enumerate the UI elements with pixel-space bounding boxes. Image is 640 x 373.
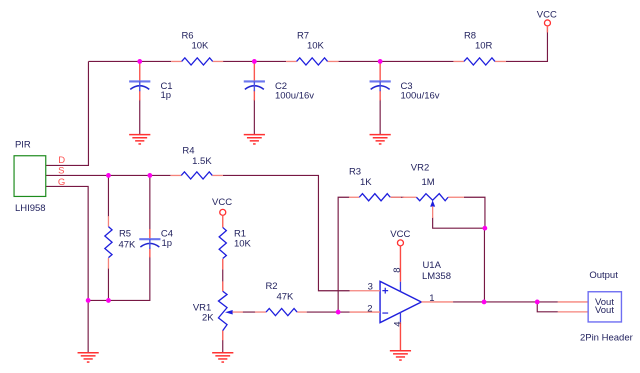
- svg-text:10K: 10K: [307, 41, 325, 52]
- junction top bus at C3: [378, 59, 383, 64]
- ground under C3: [370, 135, 391, 144]
- resistor R5 body: [105, 227, 112, 258]
- resistor R7 body: [297, 58, 328, 65]
- svg-text:VR2: VR2: [411, 163, 429, 174]
- power VCC above op-amp: [397, 240, 403, 246]
- resistor R5 pins: [107, 216, 109, 269]
- svg-text:2Pin Header: 2Pin Header: [580, 333, 633, 344]
- op-amp U1A body: [380, 281, 421, 322]
- wire header node to pin1 of header: [537, 301, 558, 303]
- svg-text:1M: 1M: [421, 177, 434, 188]
- op-amp pin 4 lead: [399, 322, 401, 350]
- svg-text:LM358: LM358: [422, 271, 451, 282]
- op-amp pin 3 lead: [350, 290, 380, 292]
- op-amp pin 8 lead: [399, 246, 401, 282]
- wire top bus segment R7 to R8: [339, 60, 454, 62]
- junction top bus at C1: [137, 59, 142, 64]
- junction S row at R5: [106, 173, 111, 178]
- capacitor C2 pins: [253, 61, 255, 100]
- resistor R2 pins: [255, 311, 307, 313]
- potentiometer VR1 pins: [222, 281, 224, 340]
- svg-text:S: S: [58, 166, 64, 177]
- wire R2 to inverting node: [307, 311, 350, 313]
- svg-text:3: 3: [368, 282, 373, 293]
- wire C3 lower to ground: [379, 99, 381, 134]
- svg-text:Vout: Vout: [595, 305, 614, 316]
- junction top bus at C2: [252, 59, 257, 64]
- resistor R7 pins: [286, 60, 339, 62]
- wire R1 to VR1 mid segment: [222, 269, 224, 281]
- wire VR1 wiper to R2: [242, 311, 255, 313]
- power VCC top right: [544, 20, 550, 26]
- svg-text:Output: Output: [589, 270, 618, 281]
- svg-text:47K: 47K: [118, 239, 136, 250]
- svg-text:VCC: VCC: [390, 229, 410, 240]
- svg-text:2: 2: [367, 303, 372, 314]
- wire top bus segment from left vertical to R6: [88, 60, 171, 62]
- svg-text:VCC: VCC: [537, 10, 557, 21]
- wire VR2 right end down to wiper node: [464, 197, 485, 228]
- svg-text:10K: 10K: [191, 41, 209, 52]
- op-amp minus sign: [382, 312, 388, 314]
- wire VR2 wiper down to node: [433, 217, 485, 228]
- wire C1 lower to ground: [139, 99, 141, 134]
- svg-text:1.5K: 1.5K: [192, 156, 212, 167]
- junction bottom node at R5: [106, 298, 111, 303]
- potentiometer VR1 wiper lead: [232, 311, 243, 313]
- ground under C2: [244, 135, 265, 144]
- ground under C1: [129, 135, 150, 144]
- resistor R1 body: [219, 227, 226, 258]
- wire R4 to corner down to op-amp pin3 row: [223, 175, 350, 290]
- ground bottom left node: [78, 353, 99, 362]
- wire header node down to pin2 of header: [537, 302, 558, 312]
- svg-text:8: 8: [392, 267, 403, 272]
- wire C2 lower to ground: [253, 99, 255, 134]
- resistor R3 body: [359, 194, 390, 201]
- resistor R8 body: [464, 58, 495, 65]
- wire feedback left vertical R3 to pin2 node: [338, 197, 349, 312]
- wire op-amp output to header node: [453, 301, 537, 303]
- svg-text:U1A: U1A: [422, 260, 441, 271]
- potentiometer VR2 wiper arrow: [430, 200, 435, 206]
- wire C4 upper connection: [149, 175, 151, 229]
- resistor R8 pins: [453, 60, 506, 62]
- junction VR2 wiper node: [482, 226, 487, 231]
- svg-text:PIR: PIR: [15, 140, 31, 151]
- wire top bus segment R6 to R7: [223, 60, 286, 62]
- op-amp power stubs: [399, 282, 401, 323]
- wire feedback node down to output: [483, 228, 485, 302]
- svg-text:1: 1: [429, 293, 434, 304]
- svg-text:4: 4: [392, 321, 403, 326]
- resistor R6 body: [182, 58, 213, 65]
- capacitor C3 pins: [379, 61, 381, 100]
- potentiometer VR1 body: [218, 291, 227, 330]
- op-amp pin 2 lead: [350, 311, 380, 313]
- potentiometer VR2 body: [416, 194, 448, 201]
- svg-text:100u/16v: 100u/16v: [400, 91, 439, 102]
- op-amp pin 1 lead: [421, 301, 453, 303]
- capacitor C2 body: [244, 81, 265, 91]
- potentiometer VR1 wiper arrow: [225, 310, 233, 315]
- wire bottom node row to C4 bottom: [88, 256, 150, 300]
- svg-text:10R: 10R: [475, 41, 493, 52]
- svg-text:10K: 10K: [234, 239, 252, 250]
- junction inverting input node: [336, 310, 341, 315]
- capacitor C1 body: [129, 81, 150, 91]
- wire VR1 bottom to ground: [222, 340, 224, 353]
- svg-text:LHI958: LHI958: [15, 203, 46, 214]
- capacitor C4 pins: [149, 229, 151, 258]
- potentiometer VR2 pins: [402, 196, 464, 198]
- PIR sensor body U? LHI958: [14, 156, 46, 197]
- resistor R2 body: [266, 308, 297, 315]
- potentiometer VR2 wiper lead: [432, 206, 434, 218]
- svg-text:R4: R4: [182, 145, 194, 156]
- resistor R3 pins: [349, 196, 401, 198]
- wire PIR S row to R4: [46, 174, 171, 176]
- ground under VR1: [212, 353, 233, 362]
- svg-text:1K: 1K: [360, 177, 372, 188]
- capacitor C3 body: [370, 81, 391, 91]
- power VCC above R1: [220, 209, 226, 215]
- svg-text:47K: 47K: [276, 291, 294, 302]
- resistor R6 pins: [171, 60, 223, 62]
- capacitor C4 body: [139, 239, 160, 249]
- junction header node: [535, 300, 540, 305]
- junction S row at C4: [147, 173, 152, 178]
- resistor R4 body: [181, 172, 212, 179]
- svg-text:R5: R5: [119, 228, 131, 239]
- header JP pins: [558, 302, 588, 312]
- svg-text:1p: 1p: [160, 90, 171, 101]
- op-amp plus sign: [382, 288, 388, 294]
- svg-text:G: G: [58, 177, 65, 188]
- svg-text:R3: R3: [349, 166, 361, 177]
- capacitor C1 pins: [139, 61, 141, 100]
- wire R3 to VR2: [391, 196, 404, 198]
- svg-text:VCC: VCC: [212, 197, 232, 208]
- wire R5 lower connection: [107, 268, 109, 300]
- junction bottom node left: [86, 298, 91, 303]
- wire bottom node down to ground: [87, 300, 89, 352]
- ground under op-amp: [390, 351, 411, 360]
- header 2Pin box: [588, 292, 621, 322]
- resistor R1 pins: [222, 215, 224, 269]
- svg-text:D: D: [58, 155, 65, 166]
- wire top bus segment R8 to VCC corner: [506, 27, 548, 62]
- svg-text:2K: 2K: [202, 313, 214, 324]
- svg-text:1p: 1p: [161, 238, 172, 249]
- svg-text:100u/16v: 100u/16v: [275, 91, 314, 102]
- junction output node: [482, 300, 487, 305]
- wire left vertical from top bus down to D pin row: [46, 61, 89, 165]
- resistor R4 pins: [170, 174, 222, 176]
- wire R5 upper connection: [107, 175, 109, 216]
- wire PIR G row to corner down to bottom node: [46, 186, 88, 300]
